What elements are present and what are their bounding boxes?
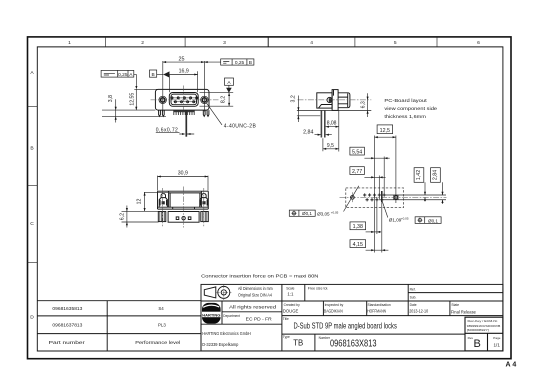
svg-text:BAGDIKIAN: BAGDIKIAN xyxy=(324,309,343,314)
lock tower left xyxy=(159,194,167,208)
svg-text:3,8: 3,8 xyxy=(108,95,114,102)
svg-text:Performance level: Performance level xyxy=(135,340,180,345)
harting logo xyxy=(202,303,221,324)
svg-text:2,77: 2,77 xyxy=(352,169,362,175)
bottom view band lines xyxy=(158,207,209,209)
dim 12 xyxy=(144,192,168,211)
svg-text:Title: Title xyxy=(283,317,289,321)
svg-text:Original Size DIN A4: Original Size DIN A4 xyxy=(238,293,273,298)
side view body step xyxy=(319,105,333,109)
dim 16,9 xyxy=(169,71,197,92)
pin comb below flange xyxy=(173,110,194,112)
svg-text:4,15: 4,15 xyxy=(353,242,363,248)
front view D-shell outer xyxy=(169,93,198,107)
pins bottom row xyxy=(173,101,196,103)
sheet outer frame xyxy=(28,37,512,359)
svg-text:8,2: 8,2 xyxy=(221,96,227,103)
svg-text:D: D xyxy=(30,315,34,321)
side view barrel xyxy=(338,93,350,108)
svg-text:HARTING Electronics GmbH: HARTING Electronics GmbH xyxy=(202,331,251,336)
projection symbol circles xyxy=(218,286,230,298)
dim 2,84 side xyxy=(315,134,332,136)
svg-text:1,42: 1,42 xyxy=(416,170,422,180)
long pin with centerline xyxy=(185,110,187,136)
screw hole right xyxy=(201,96,208,103)
svg-text:1:1: 1:1 xyxy=(287,291,294,296)
dim 8,08 xyxy=(326,110,339,151)
dim 12,5 boxed xyxy=(377,125,393,134)
svg-text:Page: Page xyxy=(493,336,501,340)
svg-text:5: 5 xyxy=(394,40,397,46)
bottom view band ticks xyxy=(173,207,195,209)
footprint extension lines xyxy=(375,136,396,253)
side view pins xyxy=(321,110,323,137)
svg-text:2: 2 xyxy=(141,40,144,46)
svg-text:Ø3,05: Ø3,05 xyxy=(317,211,330,216)
svg-text:1/1: 1/1 xyxy=(494,342,501,347)
dim 12,55 xyxy=(134,89,157,110)
lock tower right xyxy=(200,194,208,208)
position frame hole 3,05 xyxy=(289,210,315,216)
svg-text:B: B xyxy=(474,338,481,350)
svg-text:4-40UNC-2B: 4-40UNC-2B xyxy=(224,123,257,129)
svg-text:09681637813: 09681637813 xyxy=(52,322,83,327)
svg-text:Connector insertion force on P: Connector insertion force on PCB = maxi … xyxy=(201,273,319,279)
svg-text:0,25: 0,25 xyxy=(235,60,245,66)
svg-text:[600000692Y]: [600000692Y] xyxy=(467,328,489,332)
dim 8,2 xyxy=(200,93,234,107)
datum B box and triangle xyxy=(150,70,157,77)
svg-text:S4: S4 xyxy=(158,306,164,311)
note PC-Board layout xyxy=(384,98,437,119)
bottom view shell walls xyxy=(169,191,202,207)
footprint pin crosses bottom row xyxy=(366,198,384,201)
svg-text:Created by: Created by xyxy=(284,303,300,307)
svg-text:5,54: 5,54 xyxy=(352,149,362,155)
svg-text:TB: TB xyxy=(293,339,303,348)
svg-text:Ref.: Ref. xyxy=(410,288,416,292)
svg-text:25: 25 xyxy=(179,57,185,63)
svg-text:12,5: 12,5 xyxy=(380,128,390,134)
left border zone ticks xyxy=(28,106,38,262)
dim 3,8 xyxy=(102,99,166,122)
bottom view top edge xyxy=(158,190,209,192)
screw hole left xyxy=(159,96,166,103)
lock leg hatched right xyxy=(201,212,209,222)
side view flange plate xyxy=(332,90,338,111)
footprint outline dashed xyxy=(346,188,404,208)
svg-text:8,08: 8,08 xyxy=(327,121,337,127)
svg-text:Department: Department xyxy=(223,314,240,318)
svg-text:Ø0,1: Ø0,1 xyxy=(302,211,312,216)
svg-text:B: B xyxy=(249,60,252,66)
svg-text:12,55: 12,55 xyxy=(130,93,136,106)
svg-text:3: 3 xyxy=(223,40,226,46)
footprint hole right xyxy=(394,196,398,200)
insulator block xyxy=(168,212,199,223)
side view centerline xyxy=(298,99,372,101)
dim 9,5 xyxy=(323,138,339,151)
svg-text:HOFFMANN: HOFFMANN xyxy=(367,309,386,314)
board lock legs right xyxy=(203,110,209,116)
svg-text:Free size tol.: Free size tol. xyxy=(308,287,329,291)
svg-text:EC PD - FR: EC PD - FR xyxy=(246,317,273,322)
svg-text:Final Release: Final Release xyxy=(451,310,476,316)
svg-text:B: B xyxy=(30,146,33,152)
label hole 1,09 xyxy=(382,202,388,218)
centerline vertical front view xyxy=(183,86,185,111)
front view D-shell inner xyxy=(171,94,197,105)
dim 2,84 boxed xyxy=(431,168,441,183)
dim 6,2 xyxy=(122,206,159,228)
footprint centerline xyxy=(340,196,447,198)
svg-text:D-Sub STD 9P male angled board: D-Sub STD 9P male angled board locks xyxy=(294,321,397,331)
dim 1,38 boxed xyxy=(350,222,366,230)
svg-text:2013-12-10: 2013-12-10 xyxy=(409,309,429,314)
svg-text:30,9: 30,9 xyxy=(178,171,188,177)
svg-text:12: 12 xyxy=(136,199,142,205)
pins top row xyxy=(170,97,199,99)
svg-text:Sub.: Sub. xyxy=(410,296,417,300)
dim 5,54 boxed xyxy=(350,147,365,155)
svg-text:9,5: 9,5 xyxy=(327,143,334,149)
datum A box and triangle xyxy=(225,78,234,85)
doc-key and rev box xyxy=(465,317,503,351)
dim 4,15 boxed xyxy=(350,240,366,248)
svg-text:0,25: 0,25 xyxy=(118,72,128,78)
svg-text:D-32339 Espelkamp: D-32339 Espelkamp xyxy=(202,342,239,347)
dim 6,3 xyxy=(367,93,369,117)
thread label 4-40UNC-2B xyxy=(206,103,222,125)
svg-text:PC-Board layout: PC-Board layout xyxy=(384,98,427,103)
top border zone ticks xyxy=(106,37,437,47)
dim 25 xyxy=(163,61,205,112)
svg-text:16,9: 16,9 xyxy=(179,69,189,75)
tolerance frame 0,25 B xyxy=(204,61,220,63)
svg-text:B: B xyxy=(151,72,154,78)
title block grid lines xyxy=(201,284,503,351)
top zone numbers xyxy=(68,40,480,46)
lock leg hatched left xyxy=(158,212,166,222)
svg-text:1,38: 1,38 xyxy=(353,224,363,230)
tolerance frame 0,25 A xyxy=(101,70,134,77)
svg-text:All rights reserved: All rights reserved xyxy=(229,304,276,309)
footprint hole left xyxy=(351,196,355,200)
svg-text:1: 1 xyxy=(68,40,71,46)
footprint pin crosses top row xyxy=(363,193,386,196)
svg-text:Inspected by: Inspected by xyxy=(325,303,344,307)
svg-text:State: State xyxy=(451,303,459,307)
svg-text:All Dimensions in mm: All Dimensions in mm xyxy=(238,286,273,291)
svg-text:6: 6 xyxy=(477,40,480,46)
svg-text:Ø1,09: Ø1,09 xyxy=(389,217,402,222)
dim 1,42 boxed xyxy=(414,168,424,183)
title block outline xyxy=(201,284,503,351)
bottom view flange sides xyxy=(158,191,209,209)
svg-text:PL3: PL3 xyxy=(158,322,166,327)
parts table xyxy=(37,301,201,351)
board lock legs left xyxy=(159,110,165,116)
svg-text:view component side: view component side xyxy=(384,106,437,111)
svg-text:thickness 1,6mm: thickness 1,6mm xyxy=(384,114,426,119)
dim 30,9 xyxy=(158,176,209,191)
dim 3,2 xyxy=(297,96,299,123)
svg-text:Part number: Part number xyxy=(49,340,86,345)
dim 2,77 boxed xyxy=(350,167,365,175)
svg-text:6,3: 6,3 xyxy=(360,101,366,108)
svg-text:Type: Type xyxy=(283,335,290,339)
svg-text:3,2: 3,2 xyxy=(290,95,296,102)
svg-text:2,84: 2,84 xyxy=(433,170,439,180)
svg-text:+0,05: +0,05 xyxy=(331,210,339,214)
svg-text:DOUGE: DOUGE xyxy=(283,309,299,314)
svg-text:Date: Date xyxy=(410,303,417,307)
svg-text:C: C xyxy=(30,221,34,227)
svg-text:Doc-Key / ECM-Nr.: Doc-Key / ECM-Nr. xyxy=(468,319,499,323)
svg-text:2,84: 2,84 xyxy=(303,129,313,135)
svg-text:Ø0,1: Ø0,1 xyxy=(428,218,438,223)
svg-text:4: 4 xyxy=(310,40,313,46)
insulator holes xyxy=(176,217,179,220)
projection symbol cone xyxy=(204,287,216,298)
svg-text:Scale: Scale xyxy=(286,286,294,290)
centerline horizontal front view xyxy=(151,99,219,101)
svg-text:6,2: 6,2 xyxy=(119,213,125,220)
side view body xyxy=(317,93,332,108)
bottom view centerlines xyxy=(162,187,204,228)
side view PCB reference lines xyxy=(297,111,371,116)
svg-text:0968163X813: 0968163X813 xyxy=(330,337,377,349)
svg-text:HARTING: HARTING xyxy=(202,312,220,317)
svg-text:A4: A4 xyxy=(506,362,519,369)
svg-text:+0,05: +0,05 xyxy=(401,216,409,220)
sheet inner frame xyxy=(37,47,503,351)
side view lock pin xyxy=(327,97,332,102)
svg-text:Standardisation: Standardisation xyxy=(368,303,391,307)
left zone letters xyxy=(30,70,34,321)
svg-text:09681635813: 09681635813 xyxy=(52,306,83,311)
front view flange xyxy=(155,89,209,110)
